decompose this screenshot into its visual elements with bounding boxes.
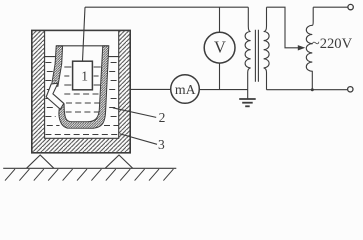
electrode 1 — [73, 61, 93, 90]
leader line 2 — [113, 108, 156, 118]
bath liquid level line — [45, 56, 119, 58]
transformer T1 core — [255, 30, 258, 82]
electrode lead wire — [83, 7, 86, 61]
svg-text:3: 3 — [158, 137, 165, 152]
ground line — [3, 167, 176, 169]
ground symbol — [239, 90, 256, 107]
svg-text:V: V — [214, 38, 226, 57]
furnace body 3 hatched walls — [32, 30, 130, 152]
crucible liquid dashes — [64, 67, 101, 112]
terminal bottom right — [348, 87, 353, 92]
voltmeter V leads — [219, 7, 221, 89]
crucible wall fold break — [46, 83, 64, 109]
bottom wire secondary side — [267, 89, 348, 91]
svg-text:~220V: ~220V — [312, 36, 353, 52]
transformer T1 primary winding — [245, 7, 251, 89]
wire secondary to variac tap — [267, 7, 299, 48]
terminal top right — [348, 4, 353, 9]
variac winding — [306, 7, 313, 90]
wire mA to transformer — [199, 89, 247, 91]
top wire — [85, 6, 248, 8]
leader line 3 — [120, 134, 157, 145]
ground hatching — [5, 169, 173, 181]
crucible 2 rim — [56, 45, 109, 47]
svg-text:1: 1 — [81, 68, 88, 83]
bath liquid dashes — [45, 63, 118, 135]
tap arrowhead — [298, 45, 306, 50]
wire variac to top terminal — [313, 6, 348, 8]
junction dot variac bottom — [311, 88, 314, 91]
voltmeter V — [204, 32, 235, 63]
support triangle right — [105, 155, 132, 168]
crucible 2 upper left wall — [51, 46, 62, 86]
support triangle left — [27, 155, 54, 168]
crucible 2 lower U band and right wall — [59, 46, 109, 128]
svg-text:mA: mA — [175, 82, 196, 97]
milliammeter mA — [171, 75, 200, 104]
transformer T1 secondary winding — [264, 7, 270, 90]
wire furnace to mA — [130, 88, 171, 90]
svg-text:2: 2 — [159, 110, 166, 125]
